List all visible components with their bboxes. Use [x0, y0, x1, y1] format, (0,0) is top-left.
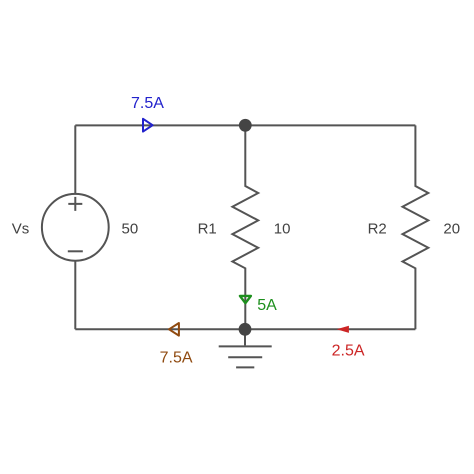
svg-text:5A: 5A: [257, 297, 277, 314]
svg-text:R2: R2: [368, 220, 387, 237]
svg-text:R1: R1: [198, 220, 217, 237]
svg-text:20: 20: [443, 220, 460, 237]
svg-text:Vs: Vs: [12, 220, 30, 237]
svg-text:7.5A: 7.5A: [160, 349, 193, 366]
svg-text:2.5A: 2.5A: [332, 343, 365, 360]
svg-text:50: 50: [122, 220, 139, 237]
svg-text:7.5A: 7.5A: [131, 95, 164, 112]
svg-text:10: 10: [274, 220, 291, 237]
